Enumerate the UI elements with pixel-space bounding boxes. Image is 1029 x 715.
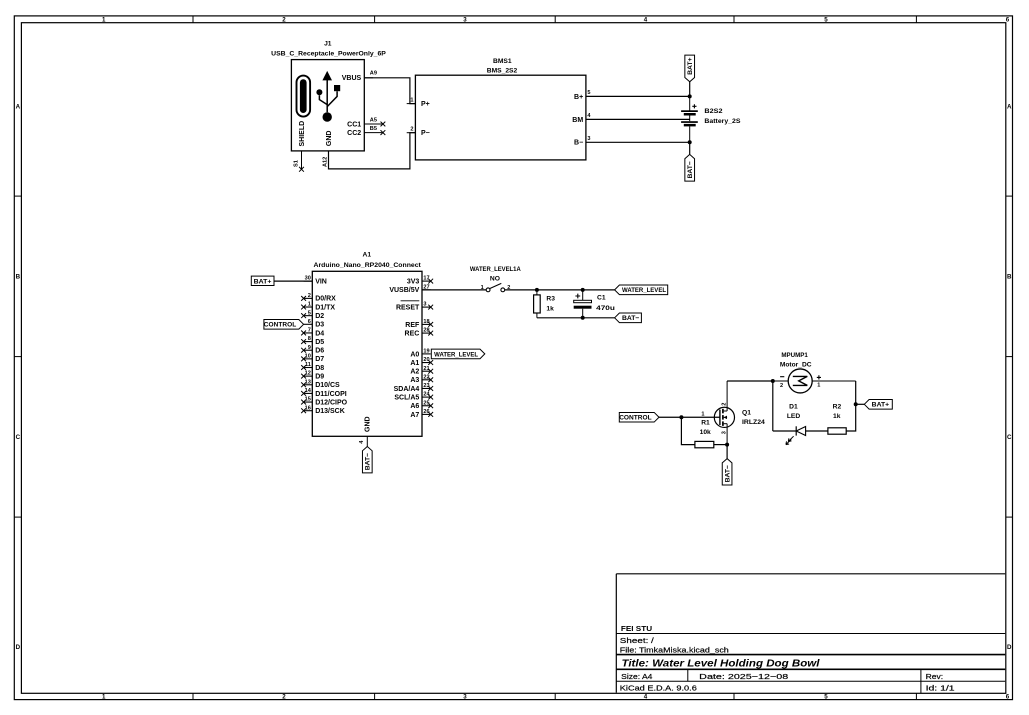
A1 pin 3 RESET <box>396 301 433 312</box>
junction source node <box>725 443 729 447</box>
svg-text:IRLZ24: IRLZ24 <box>742 419 765 426</box>
wire CONTROL to gate <box>659 416 720 418</box>
J1 pin CC2 (B5) no-connect <box>347 126 385 137</box>
A1 pin 21 A2 <box>410 366 433 376</box>
svg-text:D1/TX: D1/TX <box>315 304 335 311</box>
svg-text:4: 4 <box>644 694 648 701</box>
svg-text:P−: P− <box>421 130 430 137</box>
svg-text:A7: A7 <box>410 412 419 419</box>
svg-text:D7: D7 <box>315 356 324 363</box>
svg-text:2: 2 <box>721 403 727 406</box>
global label BAT- (at RC) <box>615 313 642 323</box>
svg-text:J1: J1 <box>324 40 332 47</box>
transistor Q1 IRLZ24 <box>701 381 765 445</box>
svg-text:D3: D3 <box>315 322 324 329</box>
svg-text:CC2: CC2 <box>347 130 361 137</box>
svg-text:R1: R1 <box>701 420 710 427</box>
svg-text:B2S2: B2S2 <box>704 108 722 115</box>
svg-text:B+: B+ <box>574 94 583 101</box>
svg-text:D: D <box>16 644 21 651</box>
A1 pin 16 D13/SCK <box>301 405 345 415</box>
junction motor left node <box>771 379 775 383</box>
svg-text:BM: BM <box>572 117 583 124</box>
wire R2 to LED <box>806 430 828 432</box>
J1 pin SHIELD (S1) no-connect <box>293 121 306 172</box>
LED D1 <box>786 404 806 445</box>
MCU A1 Arduino_Nano_RP2040_Connect <box>312 251 422 436</box>
resistor R2 1k <box>828 404 846 434</box>
svg-text:BMS_2S2: BMS_2S2 <box>487 68 518 75</box>
svg-text:1: 1 <box>817 383 820 389</box>
svg-text:WATER_LEVEL: WATER_LEVEL <box>434 351 478 358</box>
BMS1 pin 5 B+ <box>574 90 590 101</box>
global label CONTROL (to Q1 gate) <box>619 412 659 422</box>
battery B2S2 Battery_2S <box>681 96 741 142</box>
svg-text:1: 1 <box>102 17 106 24</box>
svg-text:A9: A9 <box>370 71 377 77</box>
svg-text:B: B <box>1007 273 1012 280</box>
BMS U-block BMS1 BMS_2S2 <box>415 58 586 160</box>
wire B+ to battery <box>586 95 690 97</box>
svg-text:S1: S1 <box>293 160 299 167</box>
power label BAT- (battery bottom) <box>685 142 695 181</box>
capacitor C1 470u <box>574 290 615 318</box>
resistor R1 10k <box>695 420 714 448</box>
wire R1 to source node <box>714 444 727 446</box>
A1 pin 17 3V3 <box>407 276 433 286</box>
power label BAT+ (VIN) <box>251 276 274 285</box>
svg-text:Date: 2025−12−08: Date: 2025−12−08 <box>699 672 788 681</box>
svg-text:2: 2 <box>410 127 413 133</box>
svg-text:A: A <box>16 103 21 110</box>
svg-text:24: 24 <box>423 392 430 398</box>
J1 pin VBUS (A9) <box>342 71 377 82</box>
svg-text:SCL/A5: SCL/A5 <box>394 394 419 401</box>
wire VBUS to P+ <box>364 78 415 104</box>
svg-text:File: TimkaMiska.kicad_sch: File: TimkaMiska.kicad_sch <box>620 646 729 655</box>
svg-text:1k: 1k <box>833 413 841 420</box>
svg-text:REF: REF <box>405 322 420 329</box>
svg-text:1: 1 <box>410 97 413 103</box>
svg-text:Sheet: /: Sheet: / <box>620 636 655 645</box>
A1 pin 15 D12/CIPO <box>301 397 347 407</box>
global label WATER_LEVEL (at RC) <box>615 285 668 295</box>
junction C1 bottom <box>581 316 585 320</box>
BMS1 pin 4 BM <box>572 113 591 124</box>
BMS1 pin 2 P- <box>407 127 430 138</box>
switch WATER_LEVEL1A NO <box>470 266 521 292</box>
A1 pin 1 D1/TX <box>301 302 335 312</box>
resistor R3 1k <box>534 290 556 318</box>
junction battery - node <box>688 140 692 144</box>
junction BAT+ node <box>854 402 858 406</box>
svg-text:A: A <box>1007 103 1012 110</box>
svg-text:GND: GND <box>326 131 333 147</box>
svg-text:3: 3 <box>721 431 727 434</box>
svg-text:D0/RX: D0/RX <box>315 296 336 303</box>
wire junction down to R1 <box>681 417 695 444</box>
svg-text:D2: D2 <box>315 313 324 320</box>
wire LED to drain node <box>773 430 796 432</box>
svg-text:WATER_LEVEL1A: WATER_LEVEL1A <box>470 266 521 273</box>
svg-text:5: 5 <box>308 310 311 316</box>
junction C1 top <box>581 288 585 292</box>
wire switch to WATER_LEVEL label <box>505 289 615 291</box>
svg-text:1k: 1k <box>546 306 554 313</box>
svg-text:KiCad E.D.A. 9.0.6: KiCad E.D.A. 9.0.6 <box>620 683 697 692</box>
svg-text:D8: D8 <box>315 365 324 372</box>
svg-text:VIN: VIN <box>315 278 327 285</box>
svg-text:C1: C1 <box>597 295 606 302</box>
svg-text:2: 2 <box>282 17 286 24</box>
svg-text:5: 5 <box>587 90 590 96</box>
svg-text:MPUMP1: MPUMP1 <box>781 352 808 359</box>
wire motor node down to LED <box>772 381 774 431</box>
A1 pin 25 A6 <box>410 400 433 410</box>
svg-text:A1: A1 <box>363 251 372 258</box>
svg-text:LED: LED <box>787 413 801 420</box>
junction battery + node <box>688 94 692 98</box>
svg-text:D1: D1 <box>789 404 798 411</box>
svg-text:A6: A6 <box>410 403 419 410</box>
wire VUSB/5V to switch <box>422 289 486 291</box>
BMS1 pin 3 B- <box>574 136 590 147</box>
svg-text:D5: D5 <box>315 339 324 346</box>
global label CONTROL (at D3) <box>264 320 304 330</box>
svg-text:3: 3 <box>423 302 426 308</box>
wire GND to P- <box>329 133 416 169</box>
A1 pin 11 D8 <box>301 362 324 372</box>
svg-text:BAT−: BAT− <box>365 453 372 470</box>
svg-text:A12: A12 <box>323 157 329 167</box>
wire drain to motor node <box>727 380 773 382</box>
BMS1 pin 1 P+ <box>407 97 430 108</box>
svg-text:C: C <box>1007 434 1012 441</box>
junction R1 top <box>679 415 683 419</box>
svg-text:2: 2 <box>282 694 286 701</box>
svg-text:8: 8 <box>308 336 311 342</box>
svg-text:19: 19 <box>423 349 429 355</box>
svg-text:SHIELD: SHIELD <box>299 121 306 147</box>
global label BAT+ (motor) <box>864 400 892 410</box>
svg-text:6: 6 <box>1006 694 1010 701</box>
wire motor right down to BAT+ node <box>846 381 856 431</box>
A1 pin 12 D9 <box>301 371 324 381</box>
A1 pin 22 A3 <box>410 374 433 384</box>
svg-text:B−: B− <box>574 140 583 147</box>
A1 pin 18 REF <box>405 319 433 329</box>
svg-text:FEI STU: FEI STU <box>621 624 652 633</box>
svg-text:1: 1 <box>308 302 311 308</box>
svg-text:VUSB/5V: VUSB/5V <box>389 287 419 294</box>
A1 pin 26 A7 <box>410 409 433 419</box>
svg-text:CC1: CC1 <box>347 121 361 128</box>
svg-text:BAT+: BAT+ <box>872 402 889 409</box>
svg-text:A2: A2 <box>410 369 419 376</box>
svg-text:D9: D9 <box>315 373 324 380</box>
A1 pin 19 A0 <box>410 349 430 359</box>
svg-text:BAT−: BAT− <box>622 315 639 322</box>
svg-text:1: 1 <box>102 694 106 701</box>
svg-text:RESET: RESET <box>396 304 420 311</box>
svg-text:4: 4 <box>644 17 648 24</box>
svg-text:BAT+: BAT+ <box>254 279 272 286</box>
A1 pin 13 D10/CS <box>301 379 340 389</box>
svg-text:BAT−: BAT− <box>724 465 731 482</box>
svg-text:D6: D6 <box>315 348 324 355</box>
power label BAT+ (battery top) <box>685 55 695 96</box>
svg-text:6: 6 <box>308 319 311 325</box>
A1 pin 8 D5 <box>301 336 324 346</box>
A1 pin 2 D0/RX <box>301 293 336 303</box>
svg-text:GND: GND <box>365 416 372 432</box>
svg-text:470u: 470u <box>596 305 615 312</box>
svg-text:B: B <box>16 273 21 280</box>
wire to BAT+ label <box>856 403 865 405</box>
svg-text:5: 5 <box>824 17 828 24</box>
svg-text:BAT+: BAT+ <box>687 57 694 74</box>
A1 pin 27 VUSB/5V <box>389 284 430 294</box>
A1 pin 30 VIN <box>304 276 327 286</box>
svg-text:1: 1 <box>701 412 704 418</box>
svg-text:D11/COPI: D11/COPI <box>315 391 347 398</box>
motor MPUMP1 Motor_DC <box>773 352 856 393</box>
svg-text:3V3: 3V3 <box>407 278 420 285</box>
svg-text:2: 2 <box>308 293 311 299</box>
svg-text:Id: 1/1: Id: 1/1 <box>926 683 955 692</box>
connector J1 USB_C_Receptacle_PowerOnly_6P <box>271 40 386 151</box>
svg-text:Arduino_Nano_RP2040_Connect: Arduino_Nano_RP2040_Connect <box>314 262 422 269</box>
svg-text:BAT−: BAT− <box>687 161 694 178</box>
A1 pin 5 D2 <box>301 310 324 320</box>
wire BM to battery <box>586 118 690 120</box>
svg-text:A0: A0 <box>410 351 419 358</box>
svg-text:D10/CS: D10/CS <box>315 382 340 389</box>
svg-text:Rev:: Rev: <box>926 672 944 681</box>
A1 pin 4 GND <box>359 416 372 446</box>
svg-text:Motor_DC: Motor_DC <box>780 362 812 369</box>
svg-text:CONTROL: CONTROL <box>619 415 651 422</box>
svg-text:6: 6 <box>1006 17 1010 24</box>
svg-text:VBUS: VBUS <box>342 75 362 82</box>
A1 pin 6 D3 <box>304 319 325 329</box>
svg-text:3: 3 <box>463 694 467 701</box>
wire BAT+ to VIN <box>274 280 312 282</box>
svg-text:D13/SCK: D13/SCK <box>315 408 345 415</box>
A1 pin 14 D11/COPI <box>301 388 347 398</box>
svg-text:2: 2 <box>780 383 783 389</box>
A1 pin 28 REC <box>405 328 434 338</box>
svg-text:BMS1: BMS1 <box>493 58 512 65</box>
wire B- to battery <box>586 141 690 143</box>
svg-text:D12/CIPO: D12/CIPO <box>315 399 347 406</box>
A1 pin 9 D6 <box>301 345 324 355</box>
svg-text:SDA/A4: SDA/A4 <box>394 386 420 393</box>
svg-text:9: 9 <box>308 345 311 351</box>
wire R3/C1 bottom to BAT- <box>537 317 615 319</box>
svg-text:5: 5 <box>824 694 828 701</box>
title block <box>616 574 1005 694</box>
A1 pin 10 D7 <box>301 353 324 363</box>
svg-text:Size: A4: Size: A4 <box>621 672 652 681</box>
svg-text:Battery_2S: Battery_2S <box>704 118 741 125</box>
J1 pin CC1 (A5) no-connect <box>347 118 385 129</box>
svg-text:10k: 10k <box>700 429 711 436</box>
svg-text:1: 1 <box>481 285 484 291</box>
svg-text:Title: Water Level Holding Dog: Title: Water Level Holding Dog Bowl <box>622 658 820 669</box>
svg-text:A5: A5 <box>370 118 377 124</box>
svg-text:USB_C_Receptacle_PowerOnly_6P: USB_C_Receptacle_PowerOnly_6P <box>271 51 386 58</box>
svg-text:REC: REC <box>405 330 420 337</box>
svg-text:7: 7 <box>308 328 311 334</box>
svg-text:R2: R2 <box>833 404 842 411</box>
A1 pin 24 SCL/A5 <box>394 392 433 402</box>
svg-text:Q1: Q1 <box>742 410 751 417</box>
svg-text:CONTROL: CONTROL <box>264 322 296 329</box>
svg-text:D: D <box>1007 644 1012 651</box>
svg-text:C: C <box>16 434 21 441</box>
svg-text:A1: A1 <box>410 360 419 367</box>
svg-text:B5: B5 <box>370 126 377 132</box>
A1 pin 7 D4 <box>301 328 324 338</box>
svg-text:P+: P+ <box>421 101 430 108</box>
svg-text:A3: A3 <box>410 377 419 384</box>
svg-text:NO: NO <box>490 276 500 283</box>
power label BAT- (below Q1) <box>722 459 732 485</box>
J1 pin GND (A12) <box>323 131 333 167</box>
junction R3 top <box>535 288 539 292</box>
svg-text:WATER_LEVEL: WATER_LEVEL <box>622 287 666 294</box>
svg-text:R3: R3 <box>546 295 555 302</box>
A1 pin 23 SDA/A4 <box>394 383 433 393</box>
power label BAT- (A1 GND) <box>362 447 372 473</box>
global label WATER_LEVEL (at A0) <box>431 349 485 359</box>
wire Q1 source to BAT- <box>726 445 728 459</box>
svg-text:D4: D4 <box>315 330 324 337</box>
A1 pin 20 A1 <box>410 357 433 367</box>
svg-text:3: 3 <box>587 136 590 142</box>
svg-text:3: 3 <box>463 17 467 24</box>
